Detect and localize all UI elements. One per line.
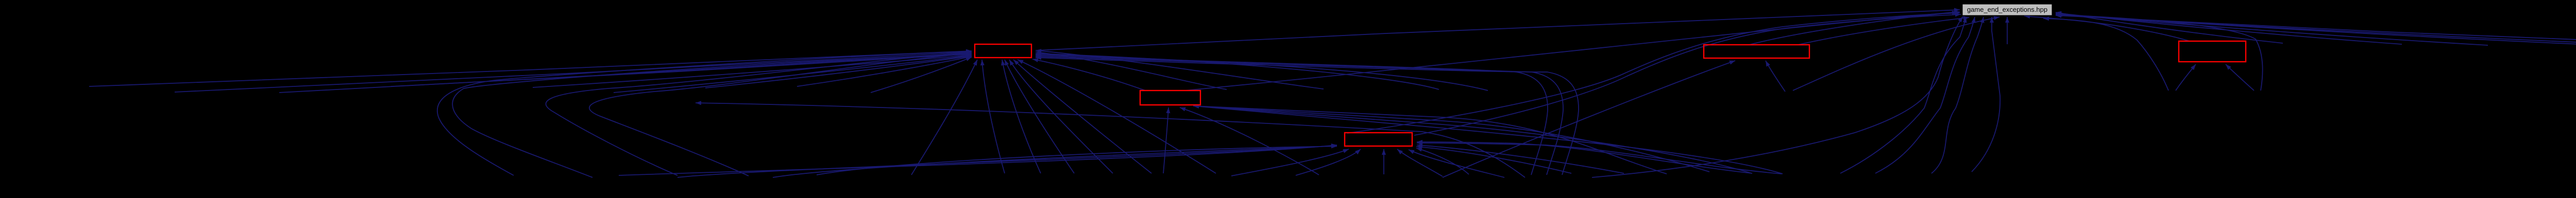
wire edge n1r5->root (2056, 14, 2576, 45)
wire edge leaf->root b0 (1840, 17, 1967, 173)
wire edge n2->D (1766, 61, 1785, 92)
wire edge D->root b (1798, 16, 1969, 45)
wire edge farleaf2->A (279, 51, 972, 93)
node C (red truncated) (1345, 133, 1412, 146)
wire edge leaf->root b2 (1931, 17, 1985, 173)
wire edge leafP1->A (1036, 55, 1563, 175)
wire edge leaf->C l0 (619, 143, 1337, 175)
wire edge n2r->root (2043, 16, 2168, 91)
wire edge n2->root (1793, 16, 1999, 91)
wire edge leaf->A b2x (1001, 60, 1041, 173)
wire edge leaf->A b2 (980, 60, 1005, 173)
wire edge farleaf0->A (89, 49, 972, 87)
wire edge n2c->A (1036, 51, 1439, 89)
wire edge leaf->A b1 (911, 60, 977, 175)
wire edge leaf->B b1 (1163, 107, 1170, 173)
wire edge farleaf1->A (175, 50, 972, 92)
wire edge B->A (1032, 58, 1145, 91)
wire edge leaf->C b1 (1231, 149, 1349, 176)
wire edge leaf->C r1 (1416, 145, 1571, 173)
wire edge leaf->B r0 (1193, 104, 1667, 174)
wire edge leaf->C r3 (1417, 140, 1752, 173)
wire edge farleaf7->A (797, 56, 972, 86)
wire edge leaf->C b2 (1296, 149, 1361, 175)
wire edge n1r4->root (2056, 13, 2576, 46)
wire edge C->root (1347, 11, 1960, 134)
wire edge farleaf3->A (391, 52, 972, 86)
wire edge n2rr->root (2057, 13, 2263, 91)
node D (red truncated) (1704, 45, 1809, 58)
wire edge leaf->root b3 (1972, 17, 2000, 172)
wire edge n2b->A (1036, 49, 1324, 89)
node B (red truncated) (1140, 91, 1200, 105)
wire edge farleaf8->A (871, 57, 972, 93)
wire edge n1r0->root (2056, 11, 2283, 43)
wire edge leaf->C b3 (1382, 149, 1386, 174)
wire edge n2d->A (1036, 52, 1488, 91)
wire edge n2->E b (2226, 64, 2254, 91)
wire edge farleaf4->A (533, 53, 972, 87)
wire edge leaf->root b4 (1592, 16, 1963, 177)
wire edge farleaf5->A (614, 54, 972, 93)
wire edge A->root (1037, 8, 1960, 50)
wire edge C->root 2 (1414, 13, 1961, 136)
wire edge n1r3->root (2056, 12, 2576, 44)
node E (red truncated) (2179, 41, 2246, 62)
wire edge leaf->C b4 (1397, 149, 1443, 176)
wire edge leafU1->A (546, 51, 972, 175)
wire edge leaf->B r1 (1193, 104, 1709, 172)
svg-text:game_end_exceptions.hpp: game_end_exceptions.hpp (1967, 6, 2047, 13)
wire edge leaf->C l1 (677, 144, 1337, 177)
wire edge D->root a (1749, 11, 1958, 45)
wire edge leafP2->A (1036, 56, 1579, 175)
wire edge leaf->C l2 (773, 144, 1337, 177)
wire edge leafP0->A (1036, 53, 1548, 175)
wire edge leaf->B b2 (1180, 107, 1319, 175)
wire edge leaf->C l3 (817, 145, 1337, 175)
wire edge leaf->A b4 (1009, 60, 1113, 173)
wire edge leafS2->A (452, 52, 972, 177)
wire edge leaf->C b5 (1409, 150, 1504, 177)
wire edge leaf->A b3 (1005, 60, 1074, 173)
wire edge leaf->C r0 (1416, 148, 1469, 174)
wire edge leaf->A b5 (1013, 60, 1151, 173)
wire edge E->root (2024, 14, 2190, 41)
wire edge leaf->root b1 (1875, 17, 1976, 173)
wire edge leaf->C r2 (1417, 143, 1624, 173)
root node game_end_exceptions.hpp (1962, 4, 2052, 15)
wire edge n1->root vert (2005, 17, 2009, 44)
wire edge leafU2->A (589, 52, 972, 176)
wire edge leaf->A b6 (1018, 60, 1216, 173)
node A (red truncated) (975, 44, 1031, 58)
wire edge leaf->midnode (696, 101, 1525, 177)
wire edge B->root (1185, 10, 1960, 91)
wire edge leafS1->A (437, 49, 972, 175)
wire edge leaf->D left (1443, 61, 1735, 177)
wire edge n1r1->root (2056, 11, 2402, 44)
wire edge leaf->C r4 (1417, 141, 1782, 174)
wire edge leaf->B r3 (1193, 104, 1783, 174)
wire edge farleaf6->A (705, 55, 972, 88)
wire edge n1r2->root (2056, 12, 2488, 45)
wire edge leaf->B r2 (1193, 104, 1752, 173)
wire edge n2->E a (2176, 64, 2196, 91)
wire edge n2a->A (1036, 50, 1227, 89)
